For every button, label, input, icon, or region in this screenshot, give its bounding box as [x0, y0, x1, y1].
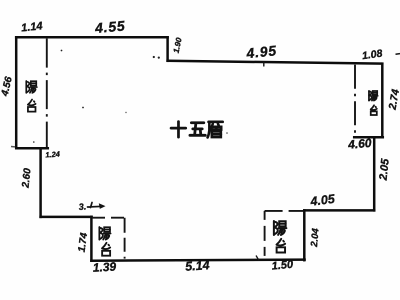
scan dash at right edge: [396, 53, 400, 56]
svg-text:2.05: 2.05: [377, 157, 391, 181]
label 陽台 bottom-left balcony: [99, 227, 110, 240]
wall left upper vertical: [15, 37, 18, 148]
svg-text:1.50: 1.50: [271, 259, 294, 273]
dashed partition top of bottom-left balcony: [92, 217, 125, 219]
svg-text:5.14: 5.14: [185, 258, 210, 274]
wall top-right horizontal: [168, 61, 383, 64]
svg-text:1.39: 1.39: [92, 260, 116, 275]
wall right edge of top-right balcony: [381, 64, 384, 138]
wall right edge of bottom-right balcony: [303, 210, 306, 260]
svg-text:1.14: 1.14: [21, 20, 44, 34]
wall top-left horizontal: [16, 36, 167, 39]
scan slash on bottom wall: [256, 256, 259, 261]
label 陽台 bottom-right balcony: [274, 221, 286, 235]
svg-text:2.74: 2.74: [386, 88, 400, 111]
wall horizontal 3.43: [41, 216, 92, 219]
scan tick below top wall: [263, 62, 265, 67]
wall right lower vertical: [373, 137, 376, 210]
label 陽台 top-left balcony: [26, 81, 37, 93]
svg-text:4.56: 4.56: [0, 75, 15, 98]
dashed partition left of top-right balcony: [354, 65, 356, 134]
svg-text:1.08: 1.08: [361, 48, 383, 63]
scan speck dots: [33, 50, 228, 143]
dashed partition top of bottom-right balcony: [265, 210, 303, 212]
svg-text:1.74: 1.74: [77, 232, 91, 253]
label 陽台 top-right balcony: [369, 91, 378, 101]
dashed partition right of top-left balcony: [46, 39, 48, 147]
dashed partition left of bottom-right balcony: [264, 211, 266, 259]
svg-text:4.05: 4.05: [309, 192, 337, 209]
dashed partition right of bottom-left balcony: [124, 218, 126, 259]
wall horizontal 4.05: [304, 209, 374, 212]
svg-text:2.04: 2.04: [309, 227, 322, 248]
wall left lower vertical: [39, 148, 42, 217]
svg-text:4.95: 4.95: [245, 42, 278, 61]
wall step vertical at top: [166, 37, 169, 61]
svg-text:1.90: 1.90: [172, 36, 184, 54]
wall bottom of top-left balcony: [17, 147, 48, 150]
wall bottom horizontal: [91, 260, 304, 261]
scan tick left of corner: [11, 146, 15, 148]
wall bottom of top-right balcony: [354, 136, 383, 139]
svg-text:3.: 3.: [78, 201, 86, 212]
svg-text:4.60: 4.60: [347, 136, 373, 152]
svg-text:2.60: 2.60: [20, 167, 33, 189]
label 十五層 (15th floor) center: [171, 122, 186, 137]
wall left edge of bottom-left balcony: [90, 217, 93, 261]
svg-text:4.55: 4.55: [93, 17, 126, 36]
svg-text:1.24: 1.24: [45, 149, 61, 159]
